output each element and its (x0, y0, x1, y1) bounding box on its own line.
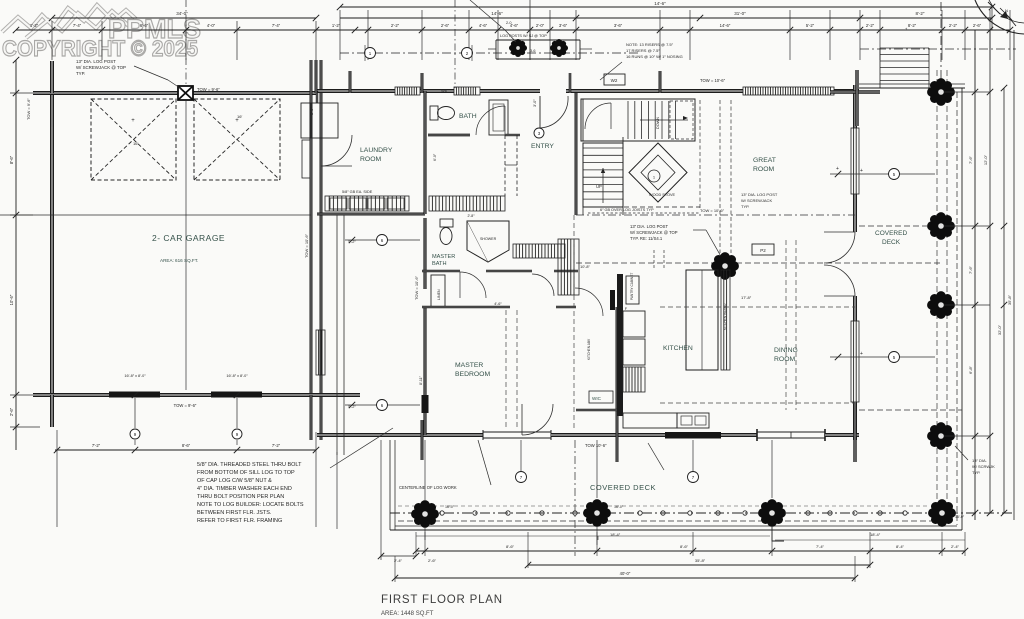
svg-text:16′-0″: 16′-0″ (445, 505, 455, 509)
bath doors (460, 272, 486, 298)
svg-text:ROOM: ROOM (360, 156, 381, 163)
dimension line row y30 (16, 29, 355, 31)
svg-text:2′-2″: 2′-2″ (866, 23, 875, 28)
north wall window bath (454, 87, 480, 95)
svg-text:GREAT: GREAT (753, 157, 776, 164)
great room beam dashes (576, 214, 855, 216)
svg-text:14′-6″: 14′-6″ (720, 23, 731, 28)
master bath vanity (429, 196, 505, 211)
svg-text:MASTER: MASTER (432, 254, 455, 260)
bottom deck south edge (390, 529, 962, 531)
svg-text:17 RISERS @ 7.5″: 17 RISERS @ 7.5″ (626, 48, 660, 53)
svg-text:W/ SCREWJACK @ TOP: W/ SCREWJACK @ TOP (76, 65, 126, 70)
svg-text:NOTE: 13 RISERS @ 7.5″: NOTE: 13 RISERS @ 7.5″ (626, 42, 674, 47)
svg-text:14′-6″: 14′-6″ (654, 1, 666, 6)
post leaders bottom (424, 527, 426, 540)
svg-text:KITCHEN ABV: KITCHEN ABV (587, 338, 591, 360)
kitchen south cabinets (623, 413, 677, 428)
svg-text:13″ DIA. LOG POST: 13″ DIA. LOG POST (741, 192, 778, 197)
svg-text:+: + (860, 168, 863, 174)
hearth dashed (600, 206, 700, 208)
svg-text:14′-6″: 14′-6″ (491, 11, 503, 16)
south wall solid segment kitchen (665, 432, 721, 439)
svg-text:TOW = 9′-6″: TOW = 9′-6″ (174, 403, 197, 408)
svg-text:COVERED DECK: COVERED DECK (590, 483, 656, 492)
svg-text:8′-4″: 8′-4″ (896, 544, 905, 549)
svg-text:5/8″ GB EA. SIDE: 5/8″ GB EA. SIDE (342, 190, 373, 194)
svg-text:16′: 16′ (133, 141, 138, 146)
svg-text:FROM BOTTOM OF SILL LOG TO TOP: FROM BOTTOM OF SILL LOG TO TOP (197, 470, 295, 476)
svg-text:2′-2″: 2′-2″ (391, 23, 400, 28)
svg-text:BEDROOM: BEDROOM (455, 371, 490, 378)
svg-text:12′-0″: 12′-0″ (983, 154, 988, 165)
svg-text:1′-2″: 1′-2″ (332, 23, 341, 28)
dims bottom row2 (528, 564, 870, 566)
svg-text:W6: W6 (441, 89, 447, 93)
garage corner cross NW (50, 61, 52, 93)
svg-text:TOW = 10′-6″: TOW = 10′-6″ (700, 208, 725, 213)
svg-text:FIRST FLOOR PLAN: FIRST FLOOR PLAN (381, 594, 503, 606)
svg-text:7′-4″: 7′-4″ (272, 23, 281, 28)
deck stairs top (880, 48, 929, 81)
grid centerline NE (860, 48, 1016, 50)
garage north wall (33, 91, 317, 93)
svg-text:LINEN: LINEN (437, 289, 441, 300)
svg-text:MASTER: MASTER (455, 362, 483, 369)
svg-text:7′-6″: 7′-6″ (968, 265, 973, 274)
master shower corner (467, 221, 509, 262)
bath toilet (430, 106, 438, 120)
svg-text:W/ SCRWJK: W/ SCRWJK (972, 464, 995, 469)
landing door (585, 103, 611, 129)
svg-text:8′-6″: 8′-6″ (680, 544, 689, 549)
svg-text:16′-8″ x 8′-0″: 16′-8″ x 8′-0″ (226, 374, 248, 378)
svg-text:W/ SCREWJACK @ TOP: W/ SCREWJACK @ TOP (630, 230, 678, 235)
svg-text:10′-8″: 10′-8″ (580, 265, 590, 269)
entry front door (539, 96, 541, 128)
kitchen dashes (653, 250, 655, 270)
svg-text:7′-2″: 7′-2″ (272, 443, 281, 448)
garage mid lines (0, 214, 311, 216)
svg-text:THRU BOLT POSITION PER PLAN: THRU BOLT POSITION PER PLAN (197, 494, 284, 500)
right deck posts (927, 78, 955, 106)
deck rail dashes bottom (398, 520, 955, 522)
W2 window tag (604, 74, 625, 85)
svg-text:W/ SCREWJACK: W/ SCREWJACK (741, 198, 772, 203)
deck tags (516, 472, 527, 483)
wood stove diamond (629, 143, 687, 202)
svg-text:13″ DIA. LOG POST: 13″ DIA. LOG POST (630, 224, 668, 229)
bath south wall (428, 133, 470, 135)
svg-text:2′-4″: 2′-4″ (951, 544, 960, 549)
laundry niche walls (316, 91, 318, 103)
svg-text:ENTRY: ENTRY (531, 143, 554, 150)
entry tag (534, 128, 544, 138)
dimension lines top (340, 6, 992, 8)
extension verticals bottom (415, 532, 417, 556)
svg-text:6′-8″: 6′-8″ (968, 365, 973, 374)
svg-text:COPYRIGHT © 2025: COPYRIGHT © 2025 (2, 36, 198, 61)
svg-text:2′-6″: 2′-6″ (9, 407, 14, 416)
svg-text:6′-0″: 6′-0″ (433, 153, 437, 161)
bedroom north wall (422, 305, 510, 307)
svg-text:TOW = 10′-6″: TOW = 10′-6″ (700, 78, 726, 83)
great room post (711, 252, 739, 280)
right interior leaders (830, 173, 935, 175)
house north wall laundry-bath (317, 89, 395, 91)
interior grid tags left (345, 239, 420, 241)
svg-text:10′-6″: 10′-6″ (9, 294, 14, 305)
porch posts (509, 39, 527, 57)
svg-text:7′-4″: 7′-4″ (73, 23, 82, 28)
svg-text:DECK: DECK (882, 239, 901, 246)
svg-text:TOW = 9′-6″: TOW = 9′-6″ (26, 98, 31, 120)
svg-text:35′-8″: 35′-8″ (1007, 294, 1012, 305)
svg-text:8′-6″: 8′-6″ (9, 155, 14, 164)
svg-text:18′-4″: 18′-4″ (870, 532, 881, 537)
west buffer wall lines (336, 215, 338, 455)
svg-text:2′-8″: 2′-8″ (468, 214, 476, 218)
linen closet (431, 275, 445, 307)
svg-text:COVERED: COVERED (875, 230, 907, 237)
svg-text:8′-2″: 8′-2″ (908, 23, 917, 28)
svg-text:WOOD STOVE: WOOD STOVE (649, 193, 676, 197)
svg-text:3′-6″: 3′-6″ (310, 107, 314, 115)
ne corner arc (975, 0, 1024, 34)
deck leader right (648, 443, 664, 470)
garage roof hatch box 2 (194, 99, 280, 180)
deck east edge (961, 88, 963, 530)
svg-text:5/8″ DIA. THREADED STEEL THRU: 5/8″ DIA. THREADED STEEL THRU BOLT (197, 462, 302, 468)
svg-text:DOWN: DOWN (656, 117, 660, 129)
hall dashed wall (504, 135, 506, 196)
svg-text:AREA: 616 SQ.FT.: AREA: 616 SQ.FT. (160, 258, 198, 263)
grid line with bubbles (340, 52, 640, 54)
svg-text:7′-4″: 7′-4″ (816, 544, 825, 549)
svg-text:8′-11″: 8′-11″ (419, 375, 423, 385)
dims left (15, 60, 17, 450)
svg-text:2′-6″: 2′-6″ (973, 23, 982, 28)
east wall window 2 (851, 321, 859, 402)
svg-text:W2: W2 (611, 78, 618, 83)
svg-text:6″ GB OVER LOG JOISTS TYP: 6″ GB OVER LOG JOISTS TYP (600, 208, 654, 212)
svg-text:WIC: WIC (592, 396, 602, 401)
svg-text:2-0: 2-0 (506, 21, 512, 25)
svg-text:8′-2″: 8′-2″ (916, 11, 925, 16)
kitchen island (686, 270, 718, 370)
svg-text:KITCHEN: KITCHEN (663, 345, 693, 352)
svg-text:TOW = 10′-6″: TOW = 10′-6″ (304, 233, 309, 258)
svg-text:2′-0″: 2′-0″ (536, 23, 545, 28)
laundry cabinets W/D (325, 196, 409, 211)
svg-text:ROOM: ROOM (753, 166, 774, 173)
svg-text:5′-2″: 5′-2″ (348, 240, 356, 244)
laundry room door from garage (321, 135, 352, 166)
east wall french door (824, 232, 855, 263)
bedroom patio door (483, 431, 551, 433)
svg-text:TOW = 10′-6″: TOW = 10′-6″ (414, 275, 419, 300)
centerline of log work (390, 512, 1014, 514)
svg-text:2′-6″: 2′-6″ (428, 558, 437, 563)
svg-text:4′-6″: 4′-6″ (494, 302, 502, 306)
closet door arc (575, 288, 603, 316)
dims bottom row3 (395, 577, 855, 579)
svg-text:N: N (1005, 8, 1008, 13)
svg-text:LOG POSTS W/ SJ @ TOP: LOG POSTS W/ SJ @ TOP (500, 34, 547, 38)
svg-text:BATH: BATH (432, 261, 447, 267)
svg-text:5′-2″: 5′-2″ (348, 405, 356, 409)
svg-text:P2: P2 (760, 248, 766, 253)
svg-text:+: + (836, 166, 839, 172)
svg-text:4″ DIA. TIMBER WASHER EACH END: 4″ DIA. TIMBER WASHER EACH END (197, 486, 292, 492)
loft dashed outline (694, 99, 696, 137)
NE corner cross (830, 90, 880, 92)
svg-text:3-6: 3-6 (530, 49, 536, 53)
porch outline (496, 39, 580, 41)
great room window band (743, 87, 834, 95)
svg-text:35′-8″: 35′-8″ (695, 558, 706, 563)
svg-text:7′-6″: 7′-6″ (968, 155, 973, 164)
stair dashed continuation (582, 207, 584, 215)
svg-text:+: + (131, 118, 135, 124)
svg-text:BATH: BATH (459, 113, 477, 120)
svg-text:TOW 10′-6″: TOW 10′-6″ (585, 443, 607, 448)
svg-text:+: + (860, 351, 863, 357)
deck north edge (859, 87, 965, 89)
garage south wall (33, 393, 360, 395)
stair upper run (down) (581, 99, 695, 141)
svg-text:TOW = 9′-6″: TOW = 9′-6″ (197, 87, 220, 92)
svg-text:40′-0″: 40′-0″ (620, 571, 631, 576)
stair lower run (up) (583, 143, 623, 207)
svg-text:1′-2″: 1′-2″ (30, 23, 39, 28)
svg-text:UP: UP (596, 184, 602, 189)
svg-text:OF CAP LOG C/W 5/8″ NUT &: OF CAP LOG C/W 5/8″ NUT & (197, 478, 272, 484)
svg-text:CENTERLINE OF LOG WORK: CENTERLINE OF LOG WORK (399, 485, 457, 490)
svg-text:31′-0″: 31′-0″ (734, 11, 746, 16)
P2 box (752, 244, 774, 255)
bottom deck west edge (389, 440, 391, 530)
svg-text:TYP. RE: 11/S4.1: TYP. RE: 11/S4.1 (630, 236, 663, 241)
svg-text:LAUNDRY: LAUNDRY (360, 147, 393, 154)
garage bottom dim (55, 449, 316, 451)
bolt circles (440, 511, 444, 515)
bedroom west wall (423, 218, 425, 289)
bottom deck posts (411, 500, 439, 528)
svg-text:4′-6″: 4′-6″ (479, 23, 488, 28)
dims bottom row1 (381, 555, 416, 557)
laundry south wall (317, 212, 425, 214)
laundry/bath wall (423, 91, 425, 214)
svg-text:AREA: 1448 SQ.FT: AREA: 1448 SQ.FT (381, 611, 434, 617)
svg-text:TYP.: TYP. (972, 470, 980, 475)
svg-text:SHOWER: SHOWER (480, 237, 497, 241)
bedroom dashed gridlines (505, 310, 507, 430)
svg-text:17′-8″: 17′-8″ (741, 295, 752, 300)
svg-text:NOTE TO LOG BUILDER: LOCATE BO: NOTE TO LOG BUILDER: LOCATE BOLTS (197, 502, 304, 508)
svg-text:2- CAR GARAGE: 2- CAR GARAGE (152, 233, 225, 243)
west wall window (316, 330, 325, 375)
svg-text:13″ DIA.: 13″ DIA. (972, 458, 987, 463)
garage door 1 (109, 392, 160, 398)
svg-text:7′-2″: 7′-2″ (92, 443, 101, 448)
laundry window (395, 87, 420, 95)
entry door opening north wall (497, 89, 540, 91)
svg-text:BETWEEN FIRST FLR. JSTS.: BETWEEN FIRST FLR. JSTS. (197, 510, 272, 516)
wic (589, 391, 613, 403)
dims right (974, 30, 976, 520)
svg-text:4′-0″: 4′-0″ (207, 23, 216, 28)
svg-text:16′: 16′ (237, 114, 242, 119)
garage door tags (134, 398, 136, 428)
bath shower (489, 100, 508, 135)
house south wall (317, 433, 422, 435)
svg-text:16′-0″: 16′-0″ (955, 515, 965, 519)
extension lines top (51, 21, 53, 60)
svg-text:PANTRY CABINET: PANTRY CABINET (630, 273, 634, 300)
deck beam dash horizontals (859, 225, 930, 227)
svg-text:16′-8″ x 8′-0″: 16′-8″ x 8′-0″ (124, 374, 146, 378)
garage center post (178, 86, 193, 100)
svg-text:16 RUNS @ 10″ W/ 1″ NOSING: 16 RUNS @ 10″ W/ 1″ NOSING (626, 54, 683, 59)
svg-text:5′-2″: 5′-2″ (806, 23, 815, 28)
master bath south wall (422, 269, 460, 271)
watermark PPMLS logo mountains (2, 5, 136, 38)
svg-text:13″ DIA. LOG POST: 13″ DIA. LOG POST (76, 59, 116, 64)
svg-text:2′-2″: 2′-2″ (949, 23, 958, 28)
garage roof hatch box 1 (91, 99, 176, 180)
svg-text:6′-6″: 6′-6″ (140, 23, 149, 28)
garage east wall (shared with house) (309, 60, 311, 440)
porch leader (470, 0, 505, 30)
great room north wall (576, 89, 743, 91)
deck rail dashes vertical (936, 70, 938, 505)
svg-text:ROOM: ROOM (774, 356, 795, 363)
svg-text:REFER TO FIRST FLR. FRAMING: REFER TO FIRST FLR. FRAMING (197, 518, 282, 524)
svg-text:TYP.: TYP. (76, 71, 85, 76)
dining slider (757, 431, 825, 433)
master bath toilet (440, 219, 453, 227)
entry east wall (574, 93, 576, 215)
closet hatched shelves (513, 244, 565, 258)
house east wall (853, 85, 855, 128)
svg-text:8′-6″: 8′-6″ (182, 443, 191, 448)
svg-text:8′-6″: 8′-6″ (506, 544, 515, 549)
garage door 2 (211, 392, 262, 398)
svg-text:32′-0″: 32′-0″ (997, 324, 1002, 335)
corner cross helpers (420, 420, 422, 460)
svg-text:16′-0″: 16′-0″ (614, 505, 624, 509)
wall stubs above north wall (348, 71, 350, 93)
east wall window 1 (851, 128, 859, 194)
svg-text:TYP.: TYP. (741, 204, 749, 209)
kitchen west wall/cabinets (617, 274, 623, 416)
svg-text:2′-6″: 2′-6″ (441, 23, 450, 28)
garage west wall (50, 61, 52, 127)
svg-text:3′-0″: 3′-0″ (533, 99, 537, 107)
svg-text:3′-6″: 3′-6″ (559, 23, 568, 28)
dining beam dashes (785, 240, 787, 410)
svg-text:3′-6″: 3′-6″ (614, 23, 623, 28)
